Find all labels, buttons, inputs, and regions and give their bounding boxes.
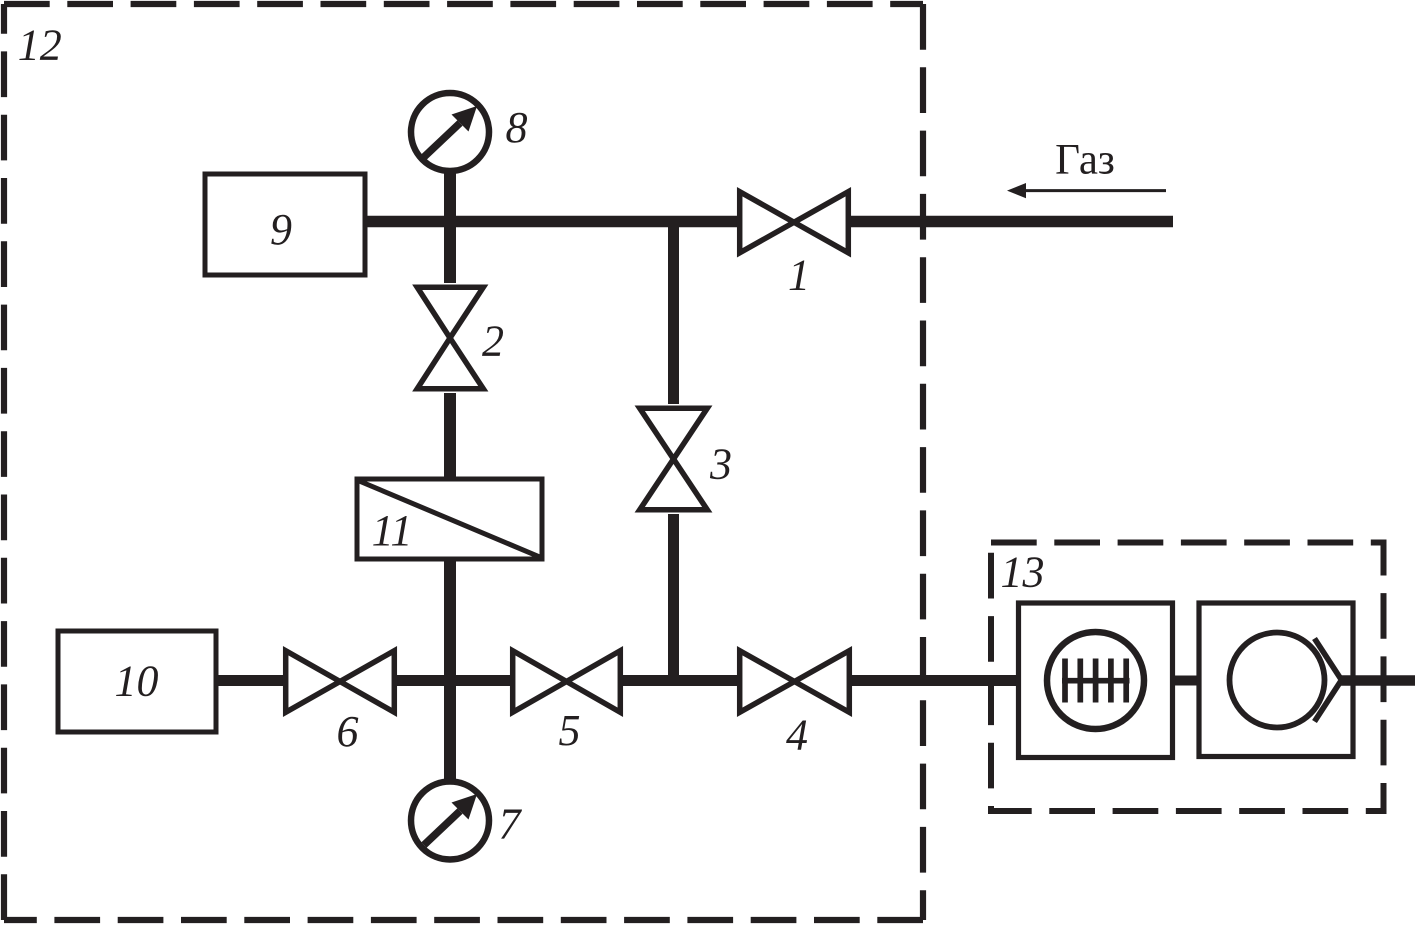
wire: valve 2 to box 11 — [444, 393, 456, 480]
wire: valve 6 to valve 5 — [396, 675, 511, 686]
svg-text:3: 3 — [709, 440, 732, 489]
wire: valve 5 to valve 4 — [622, 675, 737, 686]
svg-text:12: 12 — [18, 21, 62, 70]
wire: connector between unit 13 blocks — [1172, 676, 1200, 686]
box 11 (filter with diagonal) — [357, 479, 542, 559]
svg-text:11: 11 — [372, 506, 413, 555]
box 9 — [205, 174, 365, 275]
wire: valve 3 to bottom pipe — [668, 514, 679, 686]
valve 2 — [417, 287, 483, 389]
svg-text:7: 7 — [499, 800, 523, 849]
svg-text:8: 8 — [506, 103, 528, 152]
valve 5 — [513, 651, 621, 713]
svg-text:Газ: Газ — [1055, 137, 1115, 184]
wire: valve 4 to unit 13 first block — [852, 675, 1019, 686]
wire: unit 13 outlet to right edge — [1339, 675, 1415, 686]
valve 4 — [740, 651, 850, 713]
svg-text:6: 6 — [337, 707, 359, 756]
wire: vertical from gauge 8 through top pipe to valve 2 — [444, 172, 456, 283]
gauge 8 (manometer) — [411, 93, 489, 171]
svg-text:10: 10 — [115, 657, 159, 706]
svg-text:2: 2 — [482, 317, 504, 366]
unit 13 block: blower (square with circle and chevron) — [1199, 603, 1415, 757]
box 10 — [58, 631, 216, 732]
dashed enclosure 12 — [4, 4, 923, 920]
gauge 7 (manometer) — [411, 782, 489, 860]
wire: top pipe left segment (box 9 to valve 1) — [365, 216, 737, 228]
wire: box 10 to valve 6 — [216, 675, 284, 686]
wire: top pipe right segment (valve 1 to gas inlet) — [851, 216, 1173, 228]
valve 6 — [286, 651, 395, 713]
unit 13 block: heater (square with hatched circle) — [1019, 603, 1173, 758]
svg-text:9: 9 — [270, 205, 292, 254]
svg-text:4: 4 — [786, 711, 808, 760]
svg-text:5: 5 — [559, 706, 581, 755]
dashed enclosure 13 — [991, 543, 1384, 812]
valve 3 — [640, 408, 708, 510]
svg-text:13: 13 — [1001, 548, 1045, 597]
wire: box 11 through bottom pipe to gauge 7 — [444, 558, 456, 780]
valve 1 — [740, 192, 849, 253]
gas inlet arrow — [1007, 183, 1166, 198]
wire: top pipe down to valve 3 — [668, 216, 679, 404]
svg-text:1: 1 — [788, 251, 810, 300]
